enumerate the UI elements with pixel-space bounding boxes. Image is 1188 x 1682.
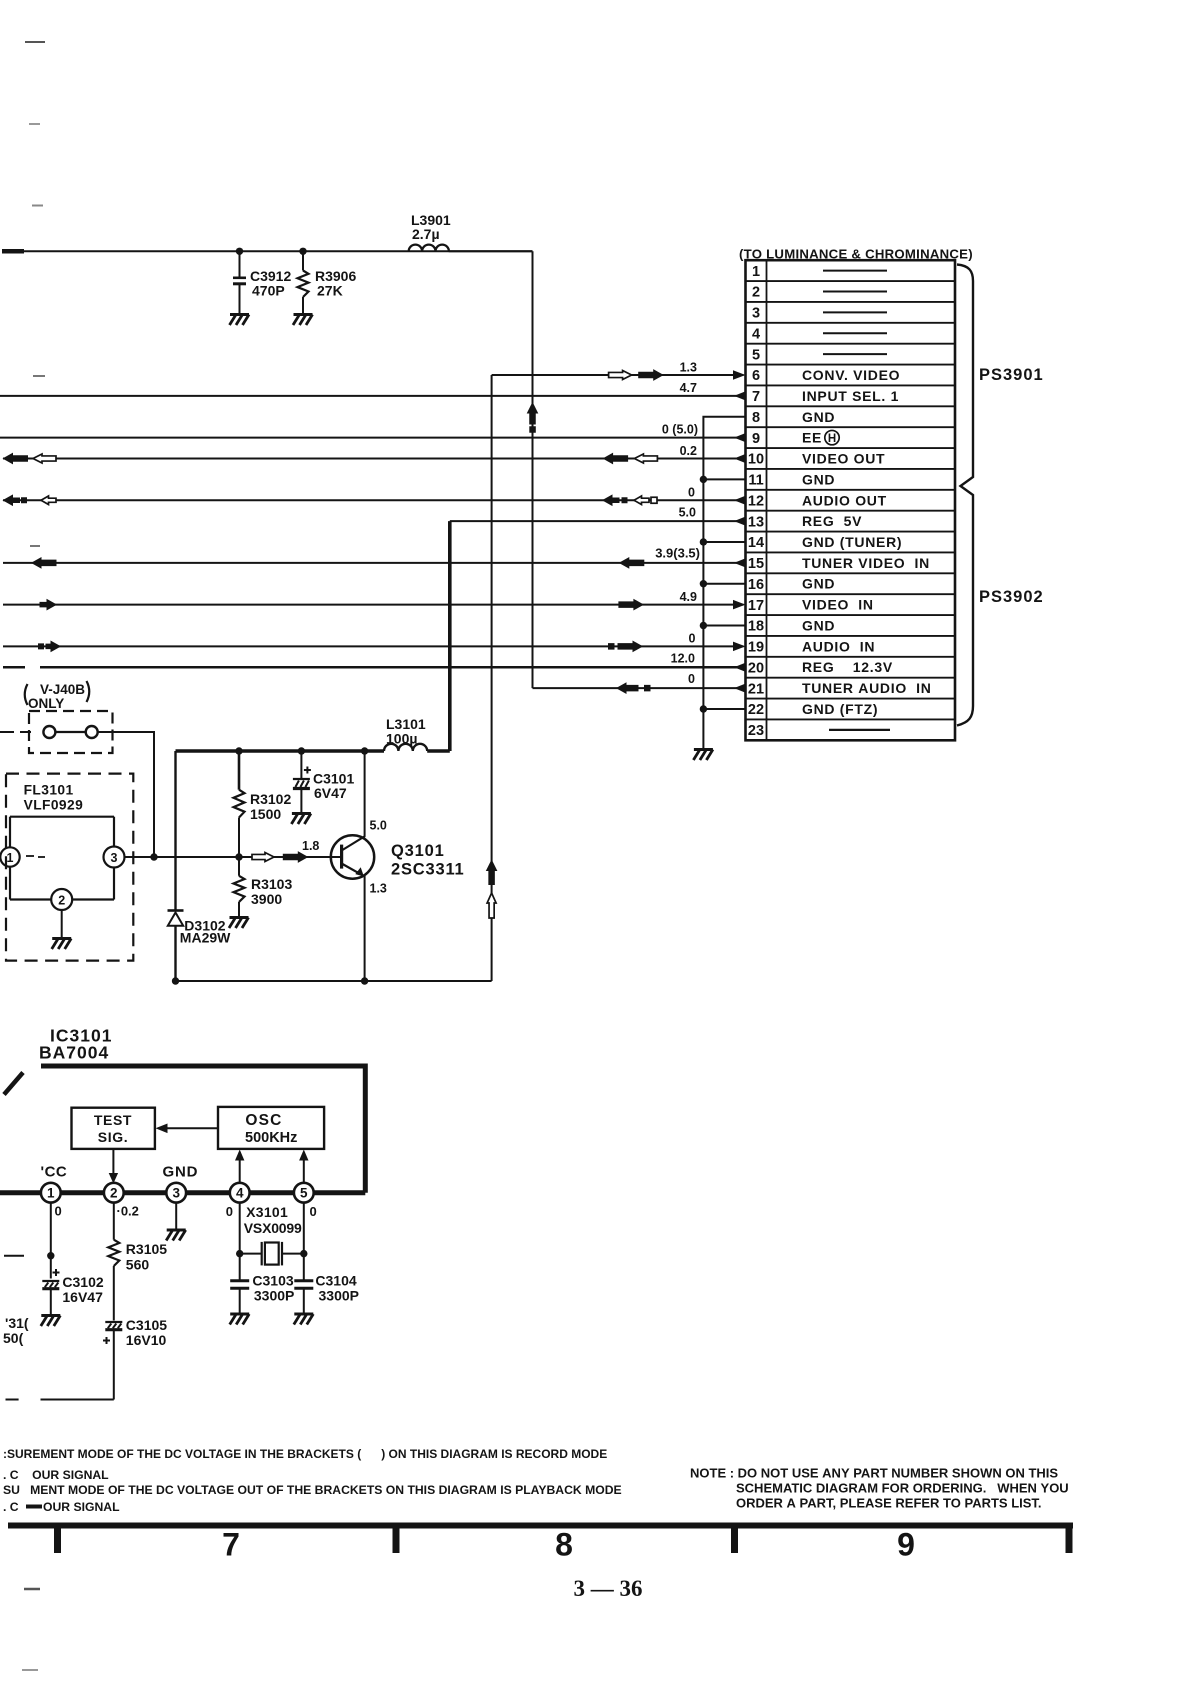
arrow OSC to TEST SIG xyxy=(156,1124,219,1134)
svg-text:16V47: 16V47 xyxy=(62,1289,103,1305)
svg-text:REG 12.3V: REG 12.3V xyxy=(802,659,893,675)
svg-text:13: 13 xyxy=(748,514,764,530)
junction pin 1 branch xyxy=(47,1252,54,1259)
ground C3102 xyxy=(41,1316,61,1327)
svg-text:1.8: 1.8 xyxy=(302,839,319,853)
resistor R3105 xyxy=(108,1240,119,1321)
svg-text:0: 0 xyxy=(226,1204,233,1219)
svg-text:EE: EE xyxy=(802,430,822,446)
arrowhead out of pin 21 xyxy=(734,683,746,693)
flow arrows pin 12 left end xyxy=(4,495,57,505)
wire pin 6 CONV. VIDEO xyxy=(492,374,744,376)
label C3103 3300P xyxy=(252,1273,294,1304)
IC pin 5 circle xyxy=(294,1183,314,1203)
wire stub left of junction xyxy=(4,1255,24,1257)
label R3103 3900 xyxy=(251,876,292,907)
flow arrow up solid on pin 6 branch xyxy=(487,861,497,885)
svg-text:3300P: 3300P xyxy=(254,1288,294,1304)
flow arrows pin 19 near connector xyxy=(608,641,642,651)
svg-text:0: 0 xyxy=(689,632,696,646)
connector pin numbers 1-23 xyxy=(748,264,764,739)
wire dashed jumper input xyxy=(0,731,31,733)
junction node R3906 xyxy=(299,248,306,255)
wire pin 20 REG 12.3V xyxy=(40,666,744,668)
ground GND bus xyxy=(693,750,713,761)
svg-text:7: 7 xyxy=(222,1527,240,1563)
svg-text:5: 5 xyxy=(300,1186,308,1201)
connector row lines xyxy=(746,281,956,719)
IC boundary slash xyxy=(4,1073,23,1095)
IC3101 top boundary thick xyxy=(41,1064,365,1069)
svg-text:6: 6 xyxy=(752,368,760,384)
svg-text:12: 12 xyxy=(748,493,764,509)
flow arrows pin 19 left end xyxy=(38,641,60,651)
junction node C3912 xyxy=(236,248,243,255)
capacitor C3912 xyxy=(233,251,246,313)
svg-text:18: 18 xyxy=(748,619,764,635)
wire main video line xyxy=(21,250,533,252)
border tick 1 xyxy=(54,1523,61,1553)
border ruler line xyxy=(8,1523,1073,1529)
svg-text:INPUT SEL. 1: INPUT SEL. 1 xyxy=(802,388,899,404)
arrowhead out of pin 13 xyxy=(734,516,746,526)
junction pin 11 bus xyxy=(700,476,707,483)
svg-text:470P: 470P xyxy=(252,283,285,299)
wire pin 19 AUDIO IN xyxy=(3,645,744,647)
filter internal dashes xyxy=(26,856,45,857)
svg-text:2: 2 xyxy=(58,893,65,907)
svg-text:. C: . C xyxy=(3,1500,19,1514)
wire pin 7 INPUT SEL. 1 xyxy=(0,395,744,397)
svg-text:C3103: C3103 xyxy=(252,1273,293,1289)
IC3101 pin bus thick xyxy=(0,1190,365,1195)
note colour signal 2 xyxy=(3,1500,120,1514)
flow arrows pin 21 near connector xyxy=(617,683,651,693)
wire pin 15 TUNER VIDEO IN xyxy=(3,562,744,564)
wire stub exit dash xyxy=(6,1399,19,1401)
svg-text:3900: 3900 xyxy=(251,891,282,907)
svg-text:1500: 1500 xyxy=(250,806,281,822)
label C3102 16V47 xyxy=(62,1274,103,1305)
wire L3901 to corner xyxy=(449,250,533,252)
arrowhead out of pin 7 xyxy=(734,391,746,401)
flow arrow pin 15 left end xyxy=(32,558,56,568)
wire pin 2 branch upper xyxy=(113,1203,115,1240)
svg-text:ONLY: ONLY xyxy=(28,696,64,711)
svg-text:3: 3 xyxy=(111,851,118,865)
ground R3103 xyxy=(229,918,249,929)
wire pin 4 branch xyxy=(239,1203,241,1280)
svg-text:CONV. VIDEO: CONV. VIDEO xyxy=(802,367,900,383)
svg-text:8: 8 xyxy=(555,1527,573,1563)
ground C3912 xyxy=(230,315,250,326)
svg-text:'CC: 'CC xyxy=(41,1164,68,1181)
svg-text:7: 7 xyxy=(752,389,760,405)
label FL3101 VLF0929 xyxy=(24,783,84,813)
junction rail collector xyxy=(361,747,368,754)
svg-text:2SC3311: 2SC3311 xyxy=(391,861,465,879)
junction pin 16 bus xyxy=(700,580,707,587)
svg-text:'31(: '31( xyxy=(5,1315,29,1331)
IC pin 4 circle xyxy=(230,1183,250,1203)
svg-text:22: 22 xyxy=(748,702,764,718)
filter pin 3 circle xyxy=(104,847,125,868)
resistor R3102 xyxy=(234,751,245,857)
svg-text:AUDIO OUT: AUDIO OUT xyxy=(802,492,887,508)
label D3102 MA29W xyxy=(180,918,231,946)
svg-text:0: 0 xyxy=(688,486,695,500)
block OSC 500KHz xyxy=(218,1107,324,1149)
svg-text:21: 21 xyxy=(748,681,764,697)
label X3101 VSX0099 xyxy=(244,1204,302,1236)
wire pin 21 TUNER AUDIO IN xyxy=(533,687,744,689)
svg-text:. C OUR SIGNAL: . C OUR SIGNAL xyxy=(3,1468,109,1482)
junction emitter bottom xyxy=(361,977,368,984)
svg-text:500KHz: 500KHz xyxy=(245,1130,297,1146)
svg-text:23: 23 xyxy=(748,723,764,739)
wire pin 5 to OSC xyxy=(299,1150,308,1184)
arrowhead into pin 19 xyxy=(733,642,746,652)
transistor Q3101 xyxy=(331,835,374,878)
arrowhead out of pin 20 xyxy=(734,662,746,672)
flow arrow up hollow on pin 6 branch xyxy=(487,893,496,918)
connector signal name labels xyxy=(802,367,932,717)
wire emitter xyxy=(364,876,366,981)
svg-text:GND (FTZ): GND (FTZ) xyxy=(802,701,878,717)
junction D3102 bottom xyxy=(172,977,179,984)
svg-text:16: 16 xyxy=(748,577,764,593)
svg-text:8: 8 xyxy=(752,410,760,426)
ground FL3101 pin 2 xyxy=(52,939,71,950)
label C3912 470P xyxy=(250,268,291,298)
svg-text:5.0: 5.0 xyxy=(679,506,696,520)
capacitor C3101 xyxy=(300,751,302,812)
flow arrows pin 10 near connector xyxy=(604,454,658,464)
svg-text:2: 2 xyxy=(752,285,760,301)
connector pin column divider xyxy=(766,260,768,740)
svg-text:2.7µ: 2.7µ xyxy=(412,226,440,242)
wire pin 14 GND to bus xyxy=(703,541,744,543)
svg-text:1.3: 1.3 xyxy=(370,882,387,896)
filter FL3101 body xyxy=(10,817,114,900)
svg-text:4.7: 4.7 xyxy=(680,381,697,395)
flow arrows pin 12 near connector xyxy=(603,495,657,505)
svg-text:0 (5.0): 0 (5.0) xyxy=(662,423,698,437)
scan mark left 3 xyxy=(30,545,40,547)
svg-text:20: 20 xyxy=(748,660,764,676)
svg-text:PS3902: PS3902 xyxy=(979,588,1044,606)
wire base line FL3101 to Q3101 xyxy=(125,856,342,858)
svg-text:AUDIO IN: AUDIO IN xyxy=(802,638,875,654)
svg-text:10: 10 xyxy=(748,452,764,468)
svg-text:3 — 36: 3 — 36 xyxy=(574,1576,643,1601)
svg-text:MA29W: MA29W xyxy=(180,930,231,946)
svg-text:1: 1 xyxy=(7,851,14,865)
scan mark bottom left 2 xyxy=(22,1669,38,1671)
svg-text:BA7004: BA7004 xyxy=(39,1043,109,1063)
svg-text:9: 9 xyxy=(897,1527,915,1563)
svg-text:4: 4 xyxy=(236,1186,244,1201)
label L3101 100u xyxy=(386,716,426,747)
flow arrow pin 15 near connector xyxy=(620,558,644,568)
wire pin 1 branch xyxy=(50,1203,52,1279)
svg-text:5.0: 5.0 xyxy=(370,819,387,833)
svg-text:GND: GND xyxy=(802,576,835,592)
svg-text:15: 15 xyxy=(748,556,764,572)
inductor L3101 xyxy=(384,744,427,751)
wire pin 10 VIDEO OUT xyxy=(3,458,744,460)
capacitor C3103 xyxy=(230,1281,249,1313)
wire pin 9 EE xyxy=(0,437,744,439)
svg-text:GND: GND xyxy=(802,409,835,425)
flow arrow hollow on base line xyxy=(252,853,274,862)
border tick 3 xyxy=(731,1523,738,1553)
svg-text:4.9: 4.9 xyxy=(680,590,697,604)
svg-text:0: 0 xyxy=(688,672,695,686)
arrow TEST SIG to pin 2 xyxy=(109,1149,118,1184)
ground C3103 xyxy=(230,1314,250,1325)
svg-text:3: 3 xyxy=(752,306,760,322)
svg-text:GND: GND xyxy=(802,471,835,487)
svg-text:9: 9 xyxy=(752,431,760,447)
wire pin 11 GND to bus xyxy=(703,478,744,480)
svg-text:SIG.: SIG. xyxy=(98,1129,128,1145)
wire jumper to base node xyxy=(98,732,154,857)
svg-text:27K: 27K xyxy=(317,283,343,299)
flow arrows pin 10 left end xyxy=(4,454,57,464)
svg-text:GND: GND xyxy=(163,1164,199,1181)
junction pin 5 crystal node xyxy=(300,1250,307,1257)
wire pin 20 stub xyxy=(3,666,25,669)
diode D3102 xyxy=(168,751,184,981)
label L3901 2.7u xyxy=(411,212,451,242)
svg-text:GND: GND xyxy=(802,617,835,633)
junction rail R3102 xyxy=(235,747,242,754)
label R3102 1500 xyxy=(250,791,291,822)
connector spare row dashes xyxy=(823,271,890,730)
svg-text:3.9(3.5): 3.9(3.5) xyxy=(655,546,700,561)
svg-text:0: 0 xyxy=(310,1204,317,1219)
wire REG 5V thick horizontal right of L3101 xyxy=(427,749,450,753)
flow arrow solid on base line xyxy=(283,852,307,862)
brace PS3901/PS3902 xyxy=(957,265,973,726)
svg-text:TUNER AUDIO IN: TUNER AUDIO IN xyxy=(802,680,932,696)
svg-text::SUREMENT MODE OF THE DC VOLTA: :SUREMENT MODE OF THE DC VOLTAGE IN THE … xyxy=(3,1447,607,1461)
svg-text:TEST: TEST xyxy=(94,1112,132,1128)
IC pin 2 circle xyxy=(104,1183,124,1203)
wire vertical from L3901 to pin 21 xyxy=(532,251,534,688)
svg-text:12.0: 12.0 xyxy=(671,652,695,666)
svg-text:0.2: 0.2 xyxy=(680,444,697,458)
svg-text:C3104: C3104 xyxy=(315,1273,356,1289)
svg-text:V-J40B: V-J40B xyxy=(40,682,85,697)
svg-text:VIDEO OUT: VIDEO OUT xyxy=(802,451,885,467)
svg-text:C3102: C3102 xyxy=(62,1274,103,1290)
svg-text:·0.2: ·0.2 xyxy=(117,1204,139,1219)
scan mark bottom left xyxy=(24,1588,40,1591)
svg-text:SU MENT MODE OF THE DC VOLTA: SU MENT MODE OF THE DC VOLTAGE OUT OF TH… xyxy=(3,1483,622,1497)
wire pin 3 to ground xyxy=(175,1203,177,1229)
junction pin 22 bus xyxy=(700,705,707,712)
wire emitter bottom line xyxy=(176,980,492,982)
scan mark left 0 xyxy=(29,123,40,125)
arrowhead out of pin 9 xyxy=(734,433,746,443)
junction pin 14 bus xyxy=(700,538,707,545)
label C3104 3300P xyxy=(315,1273,359,1304)
svg-text:3: 3 xyxy=(172,1186,180,1201)
ground R3906 xyxy=(293,315,313,326)
wire pin 22 GND to bus xyxy=(703,708,744,710)
scan mark left 2 xyxy=(33,375,45,377)
IC pin 3 circle xyxy=(166,1183,186,1203)
svg-text:560: 560 xyxy=(126,1257,150,1273)
junction rail C3101 xyxy=(298,747,305,754)
wire pin 18 GND to bus xyxy=(703,624,744,626)
svg-text:TUNER VIDEO IN: TUNER VIDEO IN xyxy=(802,555,930,571)
jumper connector V-J40B box xyxy=(29,711,113,753)
capacitor C3105 xyxy=(103,1322,122,1400)
ground C3104 xyxy=(294,1314,314,1325)
svg-text:ORDER A PART, PLEASE REFER TO: ORDER A PART, PLEASE REFER TO PARTS LIST… xyxy=(736,1496,1042,1511)
svg-text:1.3: 1.3 xyxy=(680,361,697,375)
svg-text:R3102: R3102 xyxy=(250,791,291,807)
svg-text:FL3101: FL3101 xyxy=(24,783,74,798)
svg-text:16V10: 16V10 xyxy=(126,1332,167,1348)
junction base node xyxy=(235,853,242,860)
filter pin 1 circle xyxy=(0,847,19,866)
svg-text:VIDEO IN: VIDEO IN xyxy=(802,597,874,613)
filter FL3101 dashed box xyxy=(6,774,133,961)
ground C3101 xyxy=(291,814,311,825)
svg-text:OSC: OSC xyxy=(245,1112,282,1129)
filter pin 2 circle xyxy=(51,889,72,910)
svg-text:1: 1 xyxy=(752,264,760,280)
svg-text:14: 14 xyxy=(748,535,764,551)
wire filter pin 2 to ground xyxy=(61,910,63,937)
border tick 4 xyxy=(1066,1523,1073,1553)
flow arrows pin 6 xyxy=(609,370,663,380)
label Q3101 2SC3311 xyxy=(391,842,465,879)
resistor R3906 xyxy=(298,251,309,313)
flow arrow pin 17 left end xyxy=(40,600,56,610)
wire collector xyxy=(364,751,366,836)
svg-text:11: 11 xyxy=(748,473,763,489)
svg-text:19: 19 xyxy=(748,640,764,656)
connector pin 9 label EE (H) xyxy=(802,430,839,446)
wire REG 5V thick vertical xyxy=(448,521,452,751)
IC3101 right boundary thick xyxy=(363,1064,368,1193)
note do not use part number xyxy=(690,1466,1069,1511)
svg-text:R3105: R3105 xyxy=(126,1241,167,1257)
svg-text:GND (TUNER): GND (TUNER) xyxy=(802,534,902,550)
svg-text:6V47: 6V47 xyxy=(314,785,347,801)
scan mark top left xyxy=(25,41,45,43)
wire collector supply rail xyxy=(176,749,385,752)
svg-text:100µ: 100µ xyxy=(386,731,417,747)
svg-text:SCHEMATIC DIAGRAM FOR ORDERING: SCHEMATIC DIAGRAM FOR ORDERING. WHEN YOU xyxy=(736,1481,1069,1496)
arrowhead out of pin 10 xyxy=(734,454,746,464)
flow arrow up on L3901 branch xyxy=(528,403,538,433)
svg-text:​50(: ​50( xyxy=(3,1330,24,1346)
wire pin 4 to OSC xyxy=(235,1150,244,1184)
svg-text:C3105: C3105 xyxy=(126,1317,167,1333)
svg-text:5: 5 xyxy=(752,347,760,363)
svg-text:PS3901: PS3901 xyxy=(979,366,1044,384)
wire vertical pin 6 branch to emitter line xyxy=(491,375,493,981)
connector PS3901/PS3902 outline xyxy=(746,260,956,740)
arrowhead out of pin 15 xyxy=(734,558,746,568)
wire pin 16 GND to bus xyxy=(703,583,744,585)
svg-text:17: 17 xyxy=(748,598,764,614)
label R3906 27K xyxy=(315,268,356,298)
wire main video line stub xyxy=(2,249,24,254)
svg-text:VLF0929: VLF0929 xyxy=(24,798,84,813)
crystal X3101 xyxy=(240,1242,304,1266)
svg-text:X3101: X3101 xyxy=(246,1204,288,1220)
svg-text:Q3101: Q3101 xyxy=(391,842,445,860)
wire pin 5 branch xyxy=(303,1203,305,1280)
svg-text:(TO LUMINANCE & CHROMINANCE): (TO LUMINANCE & CHROMINANCE) xyxy=(739,246,973,261)
wire pin 8 GND to bus xyxy=(703,417,744,748)
IC pin 1 circle xyxy=(41,1183,61,1203)
resistor R3103 xyxy=(234,857,245,916)
label C3105 16V10 xyxy=(126,1317,167,1348)
svg-text:H: H xyxy=(828,433,836,445)
wire pin 17 VIDEO IN xyxy=(3,604,744,606)
svg-text:0: 0 xyxy=(55,1204,62,1219)
junction pin 18 bus xyxy=(700,622,707,629)
svg-text:2: 2 xyxy=(110,1186,118,1201)
block TEST SIG xyxy=(72,1108,155,1149)
svg-text:1: 1 xyxy=(47,1186,55,1201)
border tick 2 xyxy=(393,1523,400,1553)
svg-text:VSX0099: VSX0099 xyxy=(244,1220,302,1236)
arrowhead into pin 17 xyxy=(733,600,746,610)
wire pin 2 branch exit left xyxy=(41,1399,114,1401)
jumper plug circles xyxy=(43,726,97,738)
junction pin 4 crystal node xyxy=(236,1250,243,1257)
svg-text:R3103: R3103 xyxy=(251,876,292,892)
capacitor C3102 xyxy=(42,1269,59,1314)
flow arrow pin 17 near connector xyxy=(619,600,643,610)
label C3101 6V47 xyxy=(313,771,354,802)
wire pin 13 REG 5V xyxy=(450,520,744,522)
svg-text:3300P: 3300P xyxy=(319,1288,359,1304)
arrowhead out of pin 12 xyxy=(734,495,746,505)
svg-text:4: 4 xyxy=(752,326,760,342)
arrowhead into pin 6 xyxy=(733,370,746,380)
svg-text:NOTE : DO NOT USE ANY PART NUM: NOTE : DO NOT USE ANY PART NUMBER SHOWN … xyxy=(690,1466,1058,1481)
wire pin 12 AUDIO OUT xyxy=(3,499,744,501)
inductor L3901 xyxy=(409,245,449,252)
svg-text:REG 5V: REG 5V xyxy=(802,513,862,529)
junction jumper to base line xyxy=(150,853,157,860)
ground IC pin 3 xyxy=(166,1230,186,1241)
label V-J40B ONLY xyxy=(25,681,90,711)
svg-text:OUR SIGNAL: OUR SIGNAL xyxy=(43,1500,120,1514)
scan mark left 1 xyxy=(32,205,43,207)
capacitor C3104 xyxy=(294,1281,313,1313)
label R3105 560 xyxy=(126,1241,167,1273)
label IC3101 BA7004 xyxy=(39,1026,112,1063)
